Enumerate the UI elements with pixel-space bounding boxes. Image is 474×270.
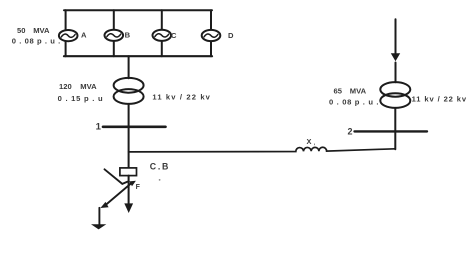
svg-text:C . B: C . B [150,162,169,172]
svg-text:120MVA: 120MVA [59,82,97,91]
svg-text:A: A [81,31,87,40]
svg-text:0 . 08 p . u .: 0 . 08 p . u . [329,98,379,107]
svg-text:0 . 08 p . u .: 0 . 08 p . u . [12,36,61,45]
svg-text:11 kv / 22 kv: 11 kv / 22 kv [152,93,210,102]
svg-text:11 kv / 22 kv: 11 kv / 22 kv [412,95,467,104]
svg-text:C: C [171,31,177,40]
svg-text:65MVA: 65MVA [334,86,367,95]
svg-text:F: F [136,184,141,191]
svg-text:2: 2 [347,127,352,137]
svg-text:D: D [228,31,234,40]
svg-text:,: , [314,141,316,147]
svg-text:1: 1 [96,122,102,133]
svg-text:50MVA: 50MVA [17,26,50,35]
svg-text:0 . 15 p . u: 0 . 15 p . u [58,94,103,103]
svg-text:X: X [307,137,312,146]
svg-text:B: B [125,30,131,39]
